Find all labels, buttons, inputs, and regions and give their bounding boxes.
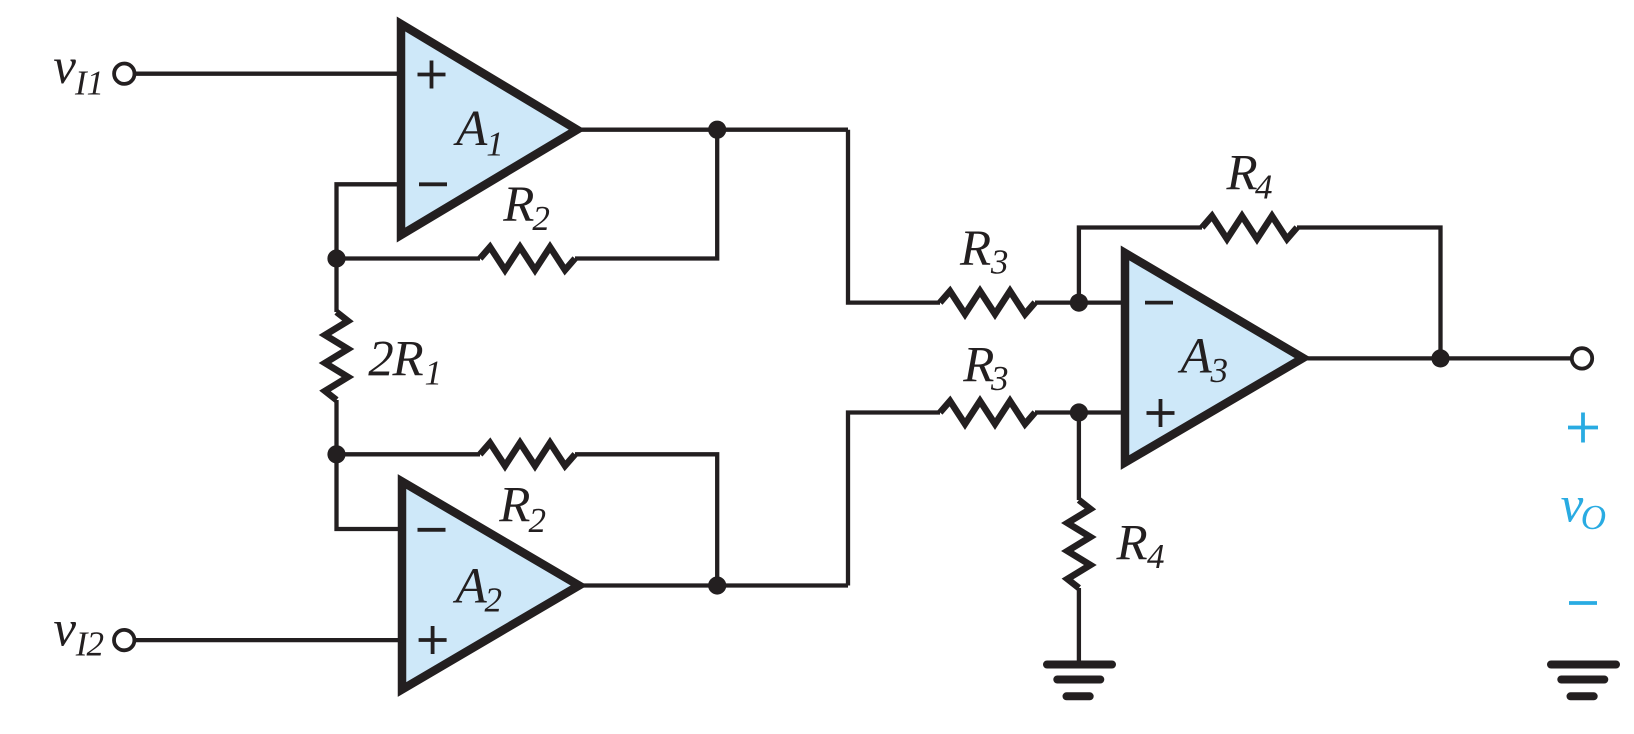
A1 plus input symbol [418, 61, 446, 89]
ground under R4 [1047, 665, 1112, 697]
node A3 + input junction [1070, 403, 1088, 421]
svg-text:R: R [962, 338, 994, 394]
svg-text:4: 4 [1147, 537, 1165, 576]
wire 2R1 bottom to A2 - input [337, 400, 403, 529]
svg-text:R: R [959, 221, 991, 277]
A1 minus input symbol [419, 182, 447, 186]
wire A2 output up to R3 bottom row [848, 413, 940, 586]
svg-text:R: R [1226, 146, 1258, 202]
A2 minus input symbol [418, 528, 446, 532]
A2 plus input symbol [419, 626, 447, 654]
wire A1 - input, left rail down to 2R1 [337, 184, 402, 312]
wire A1 output [577, 128, 848, 132]
svg-text:A: A [453, 101, 488, 157]
svg-text:3: 3 [990, 359, 1009, 398]
svg-text:1: 1 [87, 64, 105, 103]
svg-text:2: 2 [529, 501, 547, 540]
wire vI2 to A2 + input [135, 638, 403, 642]
node left rail junction top [327, 249, 345, 267]
wire R4 feedback down to output node [1297, 228, 1441, 359]
svg-text:A: A [453, 559, 488, 615]
wire A1 output down to R3 top row [848, 130, 940, 303]
node A2 output junction [708, 576, 726, 594]
resistor R2 (top) [480, 247, 575, 270]
svg-text:4: 4 [1255, 168, 1273, 207]
wire R3 top to A3 - input [1035, 300, 1125, 304]
wire A3 + input down to R4 [1077, 413, 1081, 501]
resistor R4 (to ground) [1067, 500, 1090, 588]
wire A1 feedback top: junction to R2 [337, 256, 481, 260]
terminal vI1 [114, 63, 134, 83]
resistor R2 (bottom) [480, 443, 575, 466]
svg-text:3: 3 [990, 242, 1009, 281]
svg-text:v: v [53, 39, 76, 95]
svg-text:2: 2 [87, 625, 105, 664]
svg-text:1: 1 [425, 354, 443, 393]
wire R2 bottom right lead down to A2 output [575, 454, 717, 585]
resistor 2R1 [325, 312, 348, 400]
svg-text:R: R [498, 478, 530, 534]
wire R3 bottom to A3 + input [1035, 410, 1125, 414]
resistor R3 (top) [940, 291, 1035, 314]
label minus (output polarity) [1569, 601, 1597, 605]
node output junction [1431, 349, 1449, 367]
ground at output [1551, 665, 1616, 697]
svg-text:2: 2 [368, 331, 394, 387]
svg-text:2: 2 [532, 199, 550, 238]
resistor R3 (bottom) [940, 401, 1035, 424]
A3 minus input symbol [1145, 301, 1173, 305]
A3 plus input symbol [1147, 399, 1175, 427]
svg-text:R: R [1116, 516, 1148, 572]
node A1 output junction [708, 121, 726, 139]
op-amp A1 [401, 24, 577, 235]
node A3 - input junction [1070, 294, 1088, 312]
label plus (output polarity) [1568, 413, 1598, 443]
op-amp A2 [402, 482, 579, 690]
svg-text:v: v [53, 602, 76, 658]
node left rail junction bottom [327, 445, 345, 463]
wire A3 output [1303, 356, 1572, 360]
wire left rail 2R1 bottom junction to R2 bottom [337, 452, 481, 456]
svg-text:2: 2 [485, 581, 503, 620]
svg-text:1: 1 [486, 124, 504, 163]
terminal vO [1572, 348, 1592, 368]
wire vI1 to A1 + input [135, 72, 402, 76]
svg-text:3: 3 [1210, 351, 1229, 390]
op-amp A3 [1125, 253, 1303, 463]
svg-text:A: A [1178, 328, 1213, 384]
wire A2 output [579, 583, 848, 587]
svg-text:O: O [1581, 498, 1606, 537]
svg-text:R: R [502, 177, 534, 233]
terminal vI2 [114, 630, 134, 650]
wire R2 top right lead up to A1 output [575, 130, 717, 259]
wire R4 to ground [1077, 588, 1081, 661]
resistor R4 (feedback) [1202, 216, 1297, 239]
svg-text:R: R [392, 331, 424, 387]
wire up to R4 feedback row [1079, 228, 1202, 303]
